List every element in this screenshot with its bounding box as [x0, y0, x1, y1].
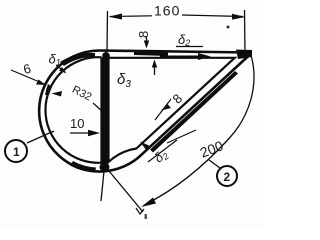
- dimension 160: extension line left: [106, 11, 109, 52]
- delta1 leader arrow: [56, 65, 65, 72]
- radius R32 leader arrow: [52, 91, 63, 97]
- dimension 160: dimension line: [110, 15, 152, 18]
- small tick at arc end: [136, 208, 144, 214]
- svg-text:1: 1: [13, 145, 20, 159]
- extension line for 200 (diagonal): [109, 171, 143, 212]
- extension line below web bottom: [101, 171, 104, 201]
- shell left wall blackening: [45, 84, 52, 95]
- svg-text:2: 2: [224, 170, 231, 184]
- balloon 2 leader: [209, 160, 220, 168]
- shell top-left wall blackening: [60, 53, 95, 66]
- shell bottom wall blackening: [70, 161, 96, 173]
- delta2 arrow on skin: [160, 53, 211, 60]
- delta2 (diagonal) arrow to skin: [140, 142, 150, 151]
- top skin wall blackening: [134, 52, 168, 57]
- delta2 (diagonal) underline: [148, 140, 177, 162]
- thickness 6 leader: [11, 70, 42, 83]
- junction dot top (web / top skin): [102, 52, 110, 60]
- dimension 160: right arrow: [232, 14, 246, 20]
- balloon 1: [5, 140, 27, 162]
- scan speck bottom mid: [145, 214, 148, 219]
- dimension 200 arrowhead: [141, 198, 156, 208]
- inner wall of leading-edge cavity and spar web left wall: [45, 57, 101, 163]
- svg-text:160: 160: [154, 3, 180, 19]
- diagonal skin wall blackening: [150, 71, 238, 153]
- thickness 8 (diagonal): leader arrow: [155, 99, 171, 120]
- balloon 1 leader: [27, 131, 54, 143]
- profile outer boundary (top skin, leading-edge arc, lower diagonal skin): [39, 50, 250, 171]
- spar web blackening: [103, 58, 108, 164]
- svg-text:8: 8: [136, 31, 151, 38]
- dimension 160: left arrow: [109, 14, 123, 20]
- junction dot bottom (web / bottom skin): [100, 162, 110, 171]
- blackened tip wedge: [236, 50, 252, 60]
- dimension 200 leader segment: [167, 130, 196, 143]
- dimension 200 curved dimension line: [146, 57, 254, 204]
- thickness 8 (top skin): leader with arrow: [146, 37, 148, 44]
- balloon 2: [217, 166, 237, 186]
- dimension 160: extension line right: [244, 10, 247, 55]
- svg-text:10: 10: [70, 116, 84, 131]
- scan speck: [227, 26, 230, 29]
- inner wall of triangular cavity and spar web right wall: [109, 58, 235, 162]
- dimension 10 line with arrow: [70, 132, 92, 134]
